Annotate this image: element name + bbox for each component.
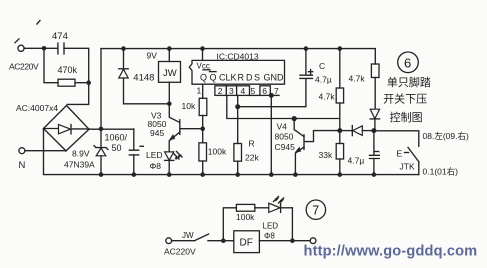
label V4 [275,121,296,151]
node branch right [290,238,295,243]
node LED bus [167,172,172,177]
node 4.7k1 top [338,46,343,51]
svg-text:5: 5 [251,86,256,96]
capacitor 474 [58,43,64,54]
label Phi8 bottom [264,232,275,241]
label 4.7u [315,74,332,84]
label AC220V [9,62,39,72]
terminal L2 AC220V bottom [166,238,172,244]
label kong zhi tu [390,110,423,124]
wire cap to corner [64,48,89,104]
svg-text:单只脚踏: 单只脚踏 [387,75,431,89]
svg-text:22k: 22k [245,152,259,162]
diode 4148 [119,49,170,104]
capacitor 4.7u second [370,131,380,175]
label dan zhi jiao ta [387,75,431,89]
label 4.7k first [319,92,336,102]
label 470k [58,65,78,75]
label 474 [52,31,68,42]
svg-text:474: 474 [52,31,68,42]
node branch left [221,238,226,243]
svg-text:470k: 470k [58,65,78,75]
node 470k right [86,80,91,85]
svg-text:IC:CD4013: IC:CD4013 [217,52,259,62]
wire pin3 CLK trigger line [227,95,340,118]
resistor 470k [58,79,89,86]
resistor 33k [336,131,343,175]
svg-text:开关下压: 开关下压 [383,92,427,106]
wire gnd pin drop [270,95,272,174]
svg-text:4.7k: 4.7k [319,92,336,102]
svg-text:R: R [238,72,245,82]
svg-text:8050: 8050 [275,131,294,141]
diode horizontal [340,126,374,136]
wire plus node to cap1060 [133,129,135,150]
svg-text:N: N [19,160,26,171]
node 22k bus [235,172,240,177]
svg-text:R: R [249,138,255,148]
svg-text:LED: LED [146,150,163,160]
wire bus right end down [374,49,376,64]
svg-text:1: 1 [197,86,202,96]
diode vertical right [370,109,379,130]
wire branch down right [291,208,293,241]
terminal L AC220V [15,39,24,52]
capacitor 1060/50 [129,146,143,174]
node plus output [99,127,104,132]
svg-text:http://www.go-gddq.com: http://www.go-gddq.com [304,244,478,260]
svg-text:100k: 100k [236,212,255,222]
label 10k [182,101,196,111]
resistor 4.7k first [336,49,343,131]
capacitor C 4.7u [300,49,313,79]
label 100k left [208,147,227,157]
zener 47N39A [94,129,108,175]
svg-text:10k: 10k [182,101,196,111]
svg-text:V4: V4 [277,121,288,131]
wire bridge left to bus [44,129,102,175]
svg-text:6: 6 [404,56,411,71]
svg-text:AC220V: AC220V [164,247,196,257]
pin 7 number [270,86,279,96]
label 01 right [423,166,459,176]
circled 6 [398,52,419,73]
svg-text:9V: 9V [147,51,158,61]
bottom ground bus [101,174,419,176]
svg-text:Φ8: Φ8 [264,232,275,241]
svg-text:6: 6 [262,86,267,96]
terminal N [19,148,25,154]
wire reset to capC [238,79,306,107]
resistor 100k left [199,129,207,175]
wire to footswitch [374,131,419,147]
label Phi8 [150,161,162,171]
switch JW bottom [172,234,224,241]
label 4.7u second [348,155,365,165]
node cap2 bus [372,172,377,177]
svg-text:4148: 4148 [133,73,154,84]
svg-text:控制图: 控制图 [390,110,423,124]
wire to terminal R2 [292,240,310,242]
svg-text:C: C [319,61,325,71]
node capC top [304,46,309,51]
relay JW [159,49,181,104]
pin box 6 [260,86,270,96]
stray mark top left [37,21,40,25]
transistor V3 [169,104,203,152]
svg-text:4.7k: 4.7k [349,74,366,84]
label Vcc [197,62,211,71]
svg-text:08.左(09.右): 08.左(09.右) [423,131,469,141]
LED D1 [165,152,183,175]
label R 22k [245,138,259,162]
transistor V4 [294,119,340,175]
node pins 6 7 gnd [269,93,274,98]
IC CD4013 box [189,60,284,84]
label 47N39A [64,160,95,170]
resistor 100k bottom [236,204,268,211]
LED D2 [269,196,293,212]
svg-text:4.7µ: 4.7µ [315,74,332,84]
node JW bottom [167,102,172,107]
circled 7 [306,200,325,219]
node zener bus [99,172,104,177]
node 100k bus [200,172,205,177]
node gnd bus [269,172,274,177]
svg-text:50: 50 [112,143,122,153]
label AC220V bottom [164,247,196,257]
label AC:4007x4 [16,103,58,113]
node switch junction [371,128,376,133]
svg-text:4.7µ: 4.7µ [348,155,365,165]
svg-text:Q: Q [210,72,217,82]
box DF [223,231,292,253]
svg-text:JTK: JTK [400,161,415,171]
label 8.9V [72,148,90,158]
resistor 4.7k second [371,64,379,109]
svg-text:C945: C945 [275,142,296,152]
label E- [397,148,403,158]
svg-text:D: D [246,72,253,82]
node V4 emitter bus [293,172,298,177]
svg-text:7: 7 [312,204,319,218]
svg-text:47N39A: 47N39A [64,160,95,170]
label LED [146,150,163,160]
label 33k [319,150,333,160]
svg-text:8.9V: 8.9V [72,148,90,158]
label JW bottom [182,231,194,240]
bridge rectifier [44,106,90,151]
pin 5 number [250,86,260,96]
node 4148 top [121,46,126,51]
label IC:CD4013 [217,52,259,62]
label 1060/50 [105,132,128,153]
resistor 10k [199,98,207,128]
wire 470k branch left [44,48,58,82]
svg-text:JW: JW [163,68,177,79]
svg-text:4: 4 [241,86,246,96]
wire bus left end down [100,49,102,129]
node 33k bus [338,172,343,177]
pin box 2 3 4 [215,86,250,96]
label 08 left 09 right [423,131,469,141]
node V3 base [200,126,205,131]
svg-text:LED: LED [263,222,279,231]
IC pin letters [200,72,284,83]
terminal R2 [310,238,316,244]
svg-text:3: 3 [229,86,234,96]
node reset [235,104,240,109]
label N [19,160,26,171]
wire Vcc [202,49,204,61]
node Vcc top [200,46,205,51]
svg-text:DF: DF [240,238,253,249]
resistor R 22k [234,107,242,175]
svg-text:7: 7 [274,86,279,96]
label V3 [148,111,167,138]
svg-text:Q: Q [200,72,207,82]
wire pin4 reset drop [237,95,239,106]
svg-text:AC:4007x4: AC:4007x4 [16,103,58,113]
label kai guan xia ya [383,92,427,106]
label LED bottom [263,222,279,231]
svg-text:100k: 100k [208,147,227,157]
node JW top [167,46,172,51]
wire bridge right to plus node [89,128,134,130]
label 100k bottom [236,212,255,222]
svg-text:Φ8: Φ8 [150,161,162,171]
top 9V bus [101,48,375,50]
footswitch JTK [405,147,419,174]
watermark [304,244,478,260]
label C [319,61,325,71]
label 4.7k second [349,74,366,84]
label 9V [147,51,158,61]
wire branch up left [223,208,236,241]
wire L input [24,47,58,49]
node cap1060 bus [132,172,137,177]
svg-text:S: S [254,72,260,82]
node trigger junction [337,128,342,133]
node cap branch [42,46,47,51]
svg-text:0.1(01右): 0.1(01右) [423,166,459,176]
svg-text:1060/: 1060/ [105,132,128,142]
label JTK [400,161,415,171]
svg-text:2: 2 [218,86,223,96]
svg-text:33k: 33k [319,150,333,160]
svg-text:GND: GND [264,72,285,82]
node V4 collector [292,116,297,121]
label 4148 [133,73,154,84]
wire N to bridge bottom [25,150,66,152]
svg-text:AC220V: AC220V [9,62,39,72]
pin 1 number [197,86,202,96]
wire pin1 to 10k [202,84,204,98]
svg-text:E: E [397,148,403,158]
svg-text:945: 945 [150,128,164,138]
svg-text:JW: JW [182,231,194,240]
svg-text:CLK: CLK [219,72,237,82]
